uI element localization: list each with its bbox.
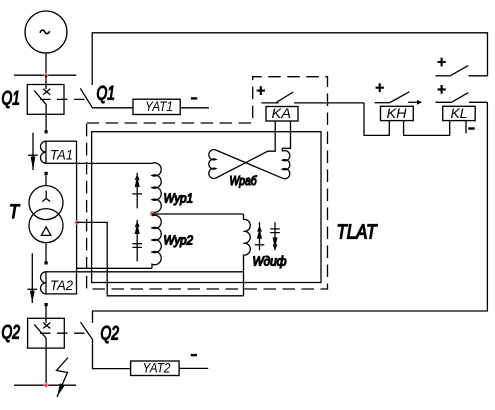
wire TA2 to Wdif node	[77, 271, 244, 273]
wire YAT2 to minus	[179, 367, 208, 369]
minus terminal KL	[468, 127, 474, 129]
breaker Q2	[28, 318, 65, 385]
mechanical link dashes Q1	[40, 98, 86, 100]
winding Wrab right coil	[282, 151, 290, 179]
TLAT dashed enclosure	[87, 77, 328, 289]
svg-text:Wдиф: Wдиф	[253, 254, 287, 269]
node junction gen-bus (red)	[44, 73, 49, 78]
svg-text:Q2: Q2	[101, 324, 120, 345]
wire KH coil to KL coil	[404, 121, 450, 136]
wire TA1 to TA2 (secondary link)	[76, 163, 78, 271]
Wrab cross link 1	[216, 121, 275, 178]
wire TA1 down to T	[45, 173, 47, 186]
svg-text:T: T	[9, 202, 20, 223]
transformer T	[29, 186, 63, 243]
contact KA	[261, 92, 364, 103]
node junction Wur1-Wur2 (red)	[150, 212, 155, 217]
breaker Q1	[27, 85, 64, 132]
winding Wur1	[152, 163, 161, 214]
plus terminal KL	[438, 85, 446, 94]
flux arrow Wur1	[132, 173, 142, 208]
plus terminal KA	[257, 86, 265, 95]
svg-text:Q1: Q1	[97, 84, 116, 105]
current direction arrow at TA1	[28, 133, 38, 170]
busbar bottom	[14, 384, 76, 386]
generator G	[25, 11, 67, 53]
current transformer TA2	[41, 272, 77, 294]
fault lightning arrow	[57, 358, 69, 398]
minus terminal YAT1	[191, 97, 197, 99]
svg-text:KL: KL	[451, 106, 468, 121]
wire T to TA2	[45, 243, 47, 263]
node junction Q2-bus (red)	[44, 383, 49, 388]
Wrab cross link 2	[216, 150, 282, 178]
svg-text:Wур1: Wур1	[164, 191, 194, 206]
terminal dot TA1 top	[45, 130, 48, 133]
action arrow KH to KL	[408, 100, 422, 105]
svg-text:TLAT: TLAT	[337, 222, 378, 244]
aux contact Q2	[80, 322, 130, 369]
wire bus to Q1	[45, 75, 47, 85]
svg-text:Q1: Q1	[2, 88, 21, 109]
svg-text:KH: KH	[387, 106, 407, 121]
winding Wrab left coil	[209, 150, 216, 179]
svg-text:TA1: TA1	[50, 147, 73, 163]
busbar top	[14, 74, 76, 76]
contact KH	[375, 92, 410, 103]
terminal dot TA2 bottom	[45, 303, 48, 306]
trip coil YAT2	[131, 361, 180, 376]
plus terminal KH	[376, 83, 384, 92]
relay KH coil box	[381, 106, 414, 121]
minus terminal YAT2	[191, 354, 197, 356]
svg-text:TA2: TA2	[50, 277, 73, 293]
contact KL	[436, 93, 488, 103]
winding Wur2	[152, 215, 161, 268]
svg-text:YAT1: YAT1	[145, 99, 173, 114]
winding Wdif	[244, 214, 251, 296]
terminal dot TA1 bottom	[45, 172, 48, 175]
svg-text:YAT2: YAT2	[143, 361, 171, 376]
wire generator to busbar	[45, 53, 47, 75]
plus terminal upper KL contact	[438, 58, 446, 67]
svg-text:KA: KA	[272, 106, 292, 121]
node junction TA link (red)	[74, 220, 79, 225]
flux arrow Wur2	[132, 220, 142, 261]
mechanical link dashes Q2	[40, 332, 86, 334]
wire Wur2 to TA2 link	[77, 267, 152, 269]
svg-text:Wур2: Wур2	[164, 233, 194, 248]
current transformer TA1	[41, 141, 77, 163]
current direction arrow at TA2	[27, 253, 37, 303]
wire top bus (trip supply)	[92, 33, 487, 85]
wire KA contact to KH coil	[364, 103, 389, 135]
TLAT inner core box	[92, 132, 321, 283]
wire TA1 to Wur1	[77, 162, 153, 164]
aux contact Q1	[80, 88, 133, 108]
terminal dot TA2 top	[45, 261, 48, 264]
trip coil YAT1	[133, 99, 180, 114]
wire TA2 to Q2	[45, 305, 47, 319]
svg-text:Q2: Q2	[2, 323, 21, 344]
wire junction to Wdif top	[152, 213, 244, 215]
relay KL coil box	[443, 106, 476, 121]
relay KA coil box	[266, 106, 298, 121]
wire YAT1 to minus	[180, 107, 209, 109]
svg-text:Wраб: Wраб	[230, 173, 258, 188]
flux arrows Wdif	[255, 222, 280, 250]
wire KL coil to minus	[465, 121, 467, 134]
wire KL contact down right side	[93, 102, 488, 323]
wire junction to Wdif loop	[77, 222, 244, 295]
contact KL upper (to Q1 trip)	[436, 66, 488, 76]
Wrab lead to KA right	[282, 121, 290, 151]
